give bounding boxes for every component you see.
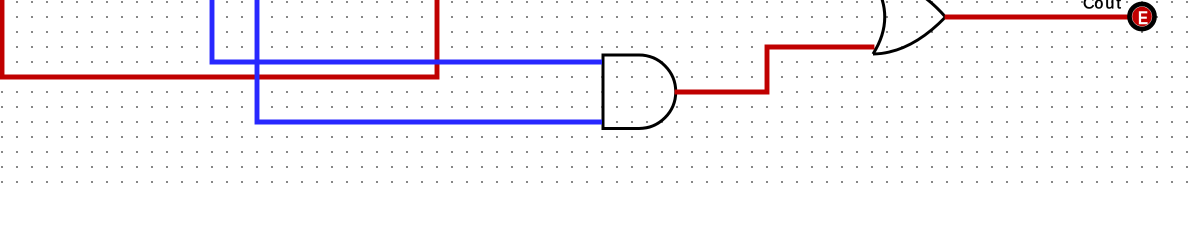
label glyph o: [1095, 0, 1103, 9]
label glyph t: [1117, 0, 1121, 9]
OR gate U2 (cut off at top edge): [873, 0, 946, 54]
wire blue floating net A: vertical x=212 to y=62, then right to AND input (602,62): [212, 0, 602, 62]
label Cout: [1084, 0, 1121, 9]
pin outer ring: [1130, 4, 1155, 29]
or-gate lower shield curve: [873, 17, 946, 54]
wire red error net: AND output to OR input (677,92 -> 767,92 -> 767,47 -> 872,47): [675, 47, 875, 92]
pin error letter E: [1139, 11, 1148, 24]
output pin Cout (error value E): [1130, 4, 1155, 29]
wire red error net: OR output to pin Cout (947,17 -> 1127,17): [945, 15, 1130, 20]
pin error disc: [1132, 7, 1152, 27]
wire blue floating net B: vertical x=257 to y=122, then right to AND input (602,122): [257, 0, 602, 122]
AND gate U1: [603, 55, 676, 129]
or-gate concave back arc: [873, 0, 885, 54]
or-gate upper shield curve: [873, 0, 946, 17]
label glyph u: [1106, 0, 1113, 9]
wire red error net: left U-loop (x=2 down, along y=77, up at x=437): [2, 0, 437, 77]
label glyph C: [1084, 0, 1094, 9]
